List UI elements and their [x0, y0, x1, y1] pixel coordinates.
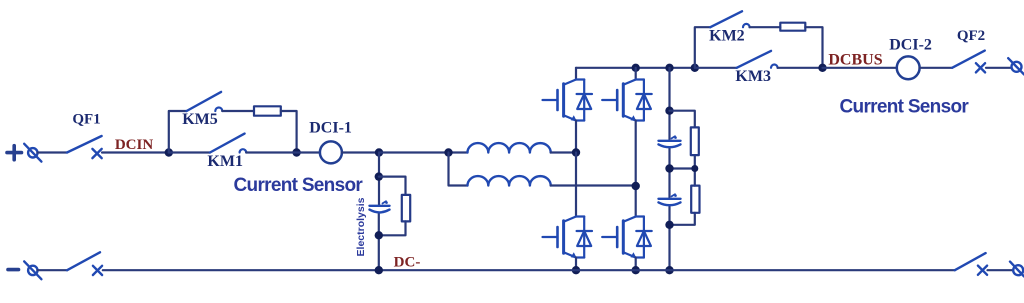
svg-text:KM1: KM1 [207, 153, 243, 170]
switch S-2 blade (bottom right) [955, 253, 986, 270]
wire KM5 branch left riser [169, 111, 187, 153]
terminal T4 (circle with slash, DC- output) [1010, 262, 1024, 277]
terminal T2 (circle with slash, DC+ output) [1008, 58, 1024, 74]
switch S- blade (bottom left) [67, 252, 100, 270]
wire KM2 branch right riser [805, 27, 822, 67]
svg-text:DCI-1: DCI-1 [309, 120, 352, 137]
wire Q1 emitter to midpoint [575, 121, 577, 153]
node cap bank bottom [665, 266, 673, 274]
wire junction to current sensor DCI-1 [246, 151, 320, 153]
wire L1 to left leg midpoint [551, 151, 576, 153]
node inductor branch [444, 148, 452, 156]
svg-text:Current Sensor: Current Sensor [234, 175, 364, 196]
wire DCBUS to current sensor DCI-2 [823, 67, 897, 69]
node KM2 riser on rail [691, 64, 699, 72]
node mid tie left [665, 164, 673, 172]
current sensor DCI-1 circle [320, 141, 342, 163]
contactor KM2 contact arc [743, 24, 750, 27]
terminal T3 (circle with slash, DC- input) [24, 261, 41, 279]
contactor KM5 blade [187, 92, 222, 111]
terminal T1 (circle with slash, DC+ input) [24, 144, 41, 162]
svg-text:KM5: KM5 [182, 111, 218, 128]
resistor R2 (balance) [691, 186, 699, 213]
right leg upper vertical [635, 68, 637, 80]
contactor KM3 contact arc [771, 65, 778, 68]
top rail of bridge [576, 67, 695, 69]
contactor KM1 wire from node [169, 151, 210, 153]
node bleeder top [375, 172, 383, 180]
inductor L1 (upper) [468, 143, 551, 152]
contactor KM2 blade [710, 11, 742, 27]
IGBT Q3 (bottom-left) [543, 217, 593, 259]
svg-text:QF1: QF1 [72, 112, 100, 128]
wire terminal T3 to bottom switch [38, 269, 68, 271]
node bleeder bottom rail [375, 266, 383, 274]
node mid tie right [691, 165, 698, 172]
wire balance resistor string [670, 111, 695, 225]
switch S-2 contact X [978, 266, 987, 275]
contactor KM1 contact arc [240, 149, 247, 152]
svg-text:Electrolysis: Electrolysis [355, 197, 367, 256]
wire QF2 to terminal T2 [986, 67, 1011, 69]
wire Q2 emitter to midpoint [635, 121, 637, 217]
wire terminal T1 to QF1 [38, 151, 68, 153]
wire resistor to right riser [281, 111, 297, 153]
capacitor C1 (bus, polarized) [659, 136, 681, 147]
svg-text:DCBUS: DCBUS [828, 52, 882, 69]
svg-text:DCIN: DCIN [115, 137, 154, 153]
node right leg top [632, 64, 640, 72]
wire to terminal T4 [988, 269, 1013, 271]
current sensor DCI-2 circle [897, 56, 920, 79]
IGBT Q4 (bottom-right) [602, 217, 652, 259]
resistor R-KM5 (precharge) [254, 106, 281, 115]
breaker QF1 blade [67, 136, 102, 153]
IGBT Q1 (top-left) [543, 80, 593, 122]
node bottom tie [665, 221, 673, 229]
node DCIN junction [165, 148, 173, 156]
wire DCI-2 to QF2 [920, 67, 953, 69]
svg-text:KM3: KM3 [735, 68, 771, 85]
svg-text:Current Sensor: Current Sensor [840, 96, 970, 117]
node bleeder bottom [375, 231, 383, 239]
wire Q4 emitter to bottom rail [635, 258, 637, 271]
resistor R1 (balance) [691, 127, 699, 155]
capacitor C2 (bus, polarized) [659, 194, 681, 205]
contactor KM5 contact arc [215, 108, 222, 112]
node KM branch right junction [292, 148, 300, 156]
wire bleeder loop [379, 177, 406, 236]
wire left leg mid vertical [575, 153, 577, 217]
breaker QF2 contact X [976, 63, 985, 72]
node cap bank top [665, 64, 673, 72]
breaker QF1 contact X [92, 149, 101, 158]
wire cap bank vertical [668, 68, 670, 270]
wire DCI-1 to node A [342, 151, 379, 153]
wire KM3 to node DCBUS [778, 67, 823, 69]
contactor KM1 blade [210, 134, 245, 153]
wire KM2 branch left riser [695, 27, 711, 68]
node right leg bottom [632, 266, 640, 274]
wire KM3 from rail node [695, 67, 737, 69]
svg-text:DC-: DC- [394, 255, 421, 271]
svg-text:QF2: QF2 [957, 28, 985, 44]
node A (cap branch) [375, 148, 383, 156]
wire KM2 to resistor [750, 26, 781, 28]
wire L2 to right leg midpoint [551, 184, 636, 186]
wire electrolysis branch vertical top [378, 153, 380, 271]
left leg upper vertical [575, 68, 577, 80]
contactor KM3 blade [737, 51, 771, 68]
minus polarity label [8, 268, 19, 272]
IGBT Q2 (top-right) [602, 80, 652, 122]
wire KM5 to resistor [222, 110, 254, 112]
bottom rail wire [103, 269, 955, 271]
svg-text:KM2: KM2 [709, 27, 745, 44]
node res tie top [665, 107, 673, 115]
svg-text:DCI-2: DCI-2 [889, 37, 932, 54]
wire Q3 emitter to bottom rail [575, 258, 577, 271]
inductor L2 (lower) [468, 176, 551, 185]
node DCBUS junction [818, 64, 826, 72]
capacitor C-electrolysis (polarized) [370, 201, 390, 212]
plus polarity label [7, 146, 22, 160]
switch S- contact X [93, 266, 102, 275]
node right leg midpoint [632, 182, 640, 190]
wire node A to inductor node [379, 151, 468, 153]
node left leg bottom [572, 266, 580, 274]
breaker QF2 blade [952, 51, 985, 68]
wire lower inductor riser [449, 153, 468, 186]
resistor R-KM2 (precharge) [780, 23, 805, 31]
node left leg midpoint [572, 148, 580, 156]
wire QF1 to node DCIN [102, 151, 169, 153]
resistor R-bleed (electrolysis) [402, 195, 410, 222]
